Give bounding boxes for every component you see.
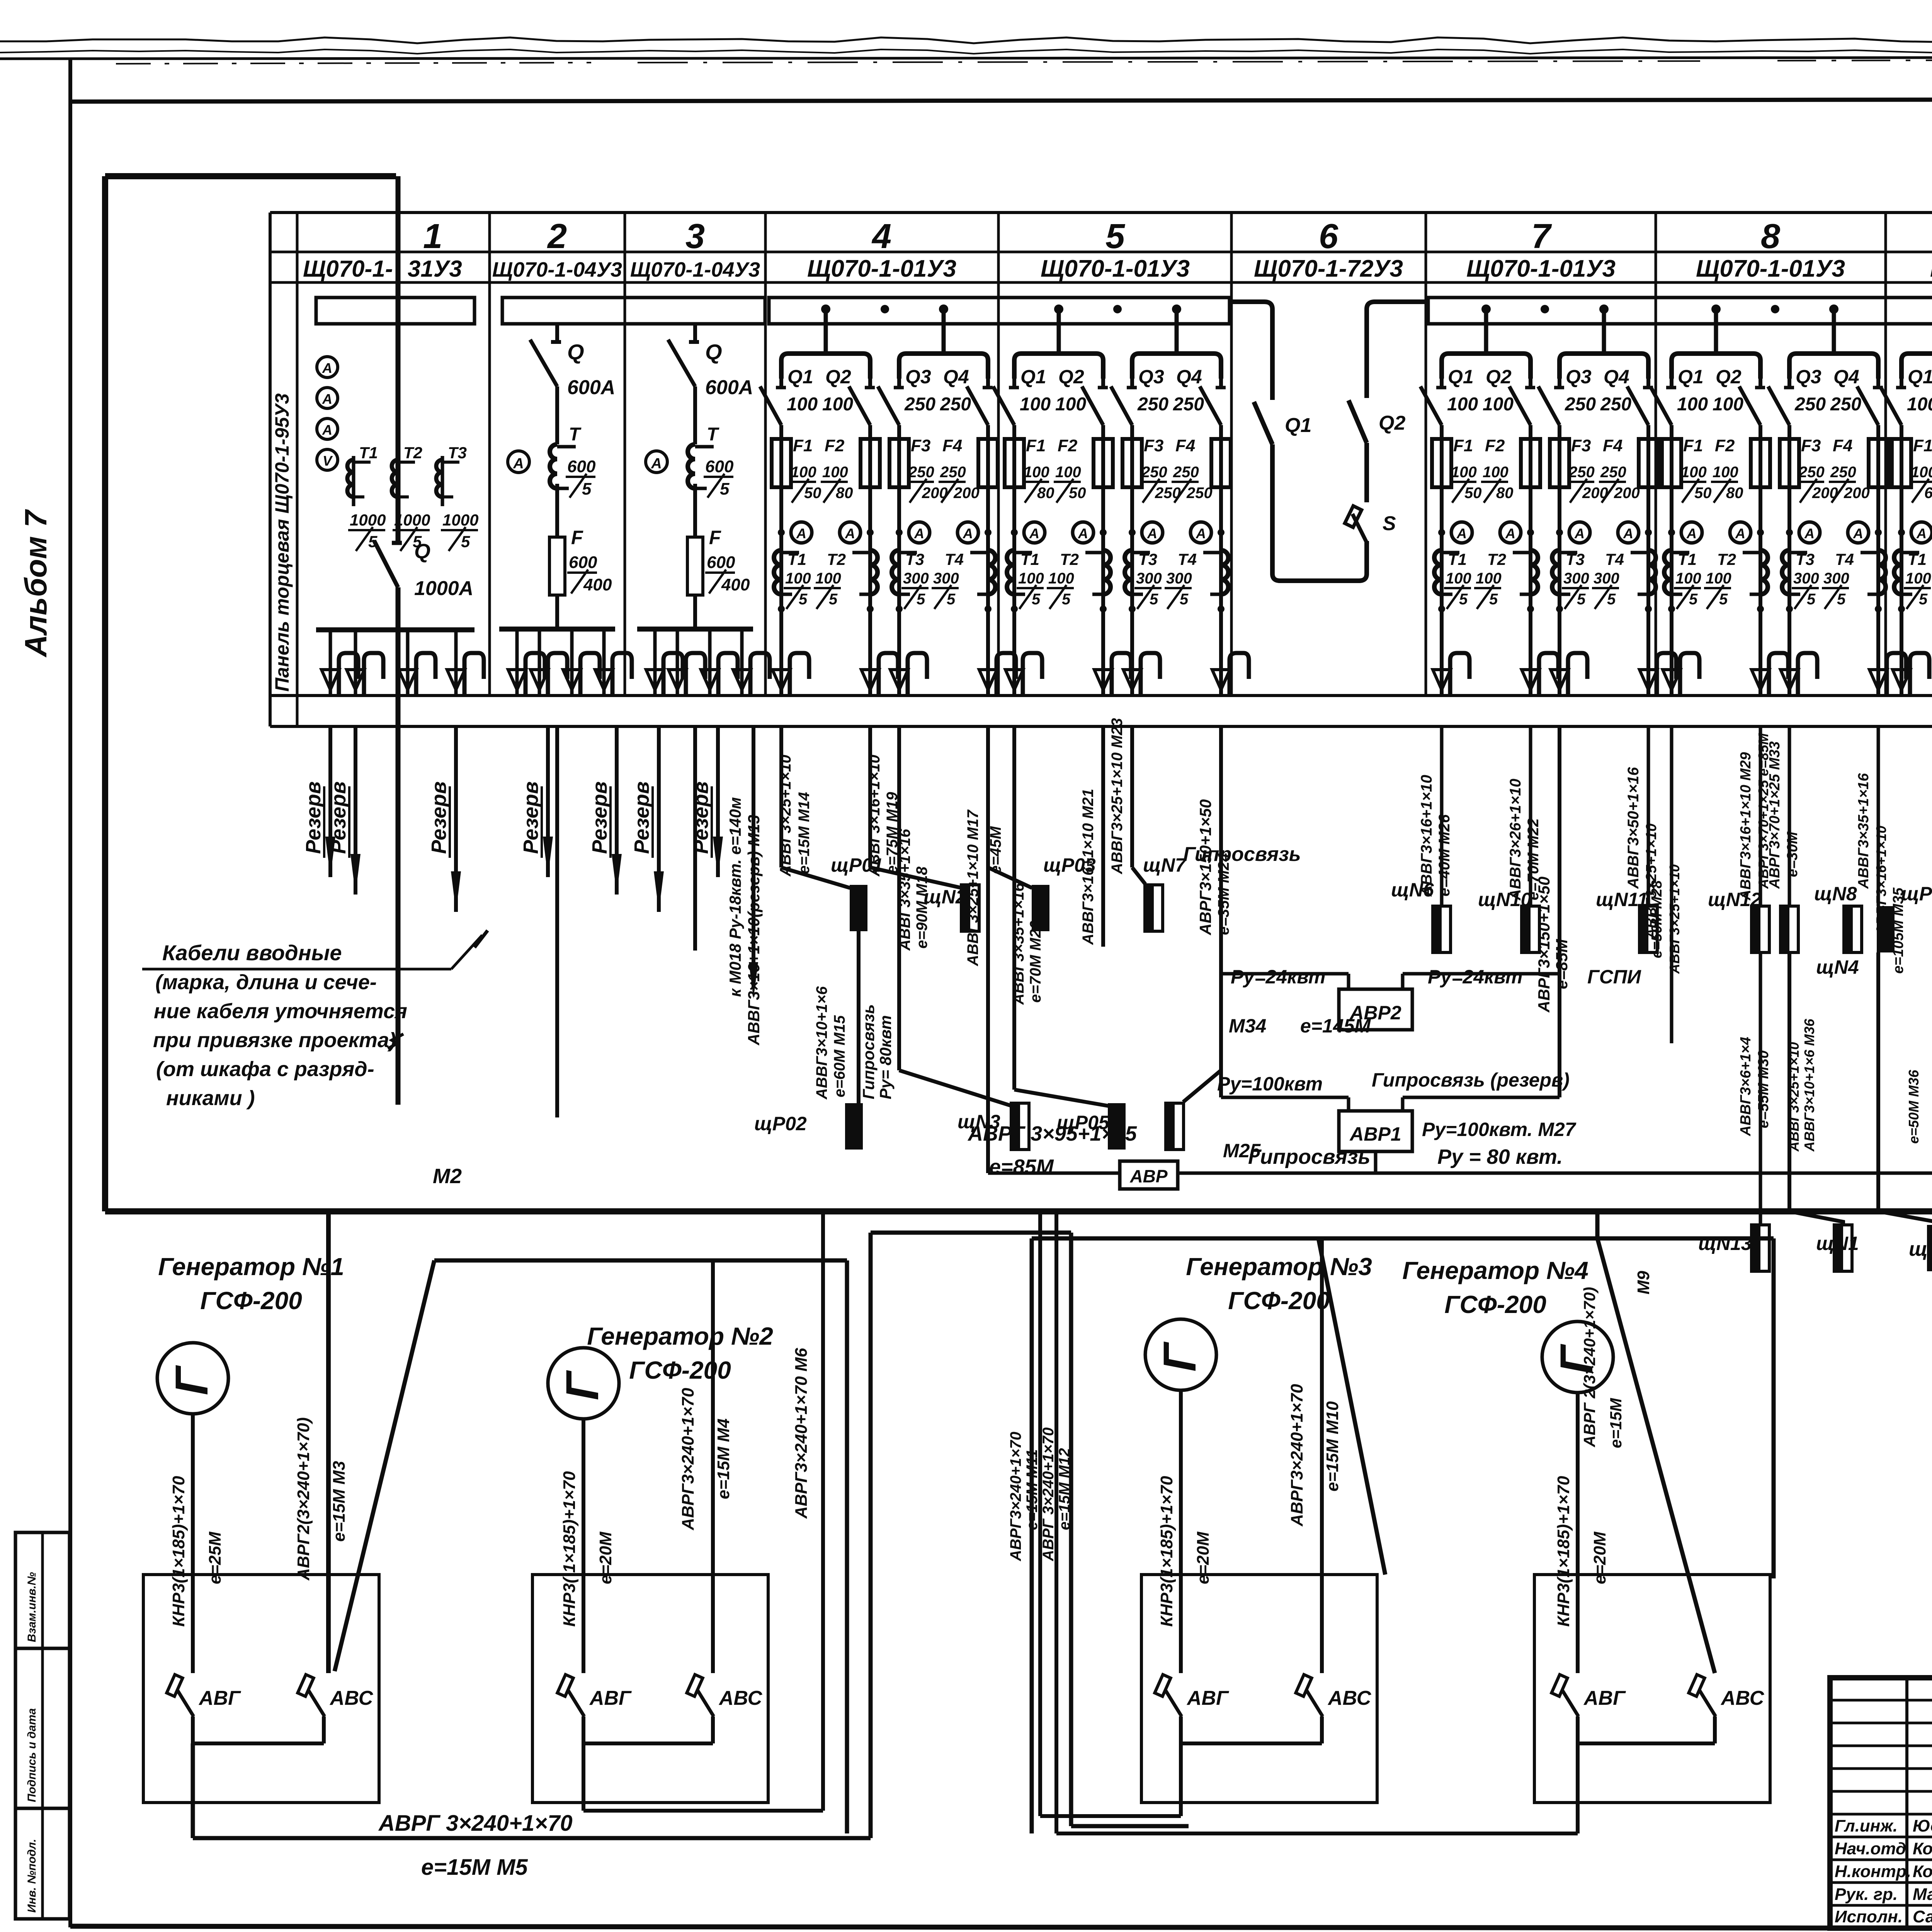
outgoing hook connector — [1433, 670, 1451, 690]
svg-text:Генератор №1: Генератор №1 — [158, 1253, 344, 1281]
svg-text:(марка, длина и сече-: (марка, длина и сече- — [155, 971, 377, 994]
switch АВС — [687, 1675, 702, 1696]
svg-text:Генератор №4: Генератор №4 — [1402, 1257, 1588, 1284]
svg-text:Т3: Т3 — [1138, 550, 1157, 568]
reserve outgoing arrow — [615, 726, 619, 895]
svg-text:100: 100 — [1706, 570, 1731, 587]
Giprosvyaz 80kW line — [1178, 1172, 1932, 1175]
breaker Q3 250A — [1558, 379, 1561, 388]
current transformer T 100/5 — [1103, 550, 1111, 594]
svg-text:Q4: Q4 — [1833, 366, 1859, 388]
svg-text:А: А — [1623, 526, 1633, 541]
svg-text:е=15М: е=15М — [1607, 1398, 1625, 1448]
bus tap dot x=4746 — [1829, 304, 1838, 314]
svg-text:600: 600 — [705, 457, 734, 476]
svg-text:Резерв: Резерв — [630, 781, 653, 854]
svg-text:5: 5 — [1105, 217, 1126, 256]
svg-text:S: S — [1383, 512, 1396, 535]
svg-text:100: 100 — [1055, 394, 1086, 415]
outgoing hook connector — [1752, 670, 1769, 690]
input cable M2 left — [396, 176, 401, 543]
fuse F 600/400 — [549, 537, 565, 595]
bus tap dot x=4441 — [1711, 304, 1721, 314]
svg-text:АВРГ 3×240+1×70: АВРГ 3×240+1×70 — [1040, 1427, 1057, 1561]
switch Q1 — [1254, 402, 1272, 444]
generator G4 symbol — [1542, 1321, 1613, 1393]
lead to AVR1 left — [1221, 1096, 1349, 1099]
svg-text:250: 250 — [940, 464, 966, 481]
svg-text:щР02: щР02 — [754, 1113, 807, 1134]
tap from section B busbar — [1375, 299, 1428, 304]
cable M23 to shchN7 — [1130, 726, 1134, 867]
outgoing hook connector — [1212, 670, 1230, 690]
bus tap dot x=3846 — [1481, 304, 1491, 314]
svg-text:F1: F1 — [1026, 436, 1046, 455]
svg-text:Q1: Q1 — [1678, 366, 1704, 388]
AVR1 down link — [1374, 1151, 1378, 1173]
switch Q 1000A on input line — [374, 541, 398, 587]
ammeter A — [1142, 522, 1163, 543]
outgoing hook connector — [772, 670, 790, 690]
svg-text:АВВГ3×25+1×10: АВВГ3×25+1×10 — [777, 755, 794, 877]
svg-text:М2: М2 — [433, 1165, 462, 1188]
svg-text:F4: F4 — [1175, 436, 1195, 455]
svg-text:АВВГ3×26+1×10: АВВГ3×26+1×10 — [1507, 779, 1524, 901]
svg-text:Резерв: Резерв — [689, 781, 713, 854]
svg-text:АВВГ3×35+1×16: АВВГ3×35+1×16 — [1010, 883, 1027, 1005]
svg-text:е=55М М30: е=55М М30 — [1755, 1050, 1772, 1128]
svg-text:КНР3( 1×185)+1×70: КНР3( 1×185)+1×70 — [560, 1471, 579, 1627]
svg-text:Мамренко: Мамренко — [1913, 1885, 1932, 1904]
svg-text:Самохина: Самохина — [1913, 1907, 1932, 1926]
cable M10 G3 AVS up — [1320, 1238, 1324, 1673]
svg-text:5: 5 — [582, 480, 592, 498]
svg-text:АВС: АВС — [1720, 1687, 1765, 1709]
svg-text:Q3: Q3 — [1796, 366, 1821, 388]
current transformer T 100/5 — [1007, 550, 1014, 594]
svg-text:АВРГ3×150+1×50: АВРГ3×150+1×50 — [1535, 876, 1553, 1013]
svg-text:Т3: Т3 — [1566, 550, 1585, 568]
svg-text:80: 80 — [1496, 485, 1514, 502]
ammeter A — [508, 451, 529, 473]
svg-text:ГСФ-200: ГСФ-200 — [1228, 1287, 1330, 1315]
AVR2 box — [1339, 989, 1412, 1030]
svg-text:к М018 Ру-18квт. е=140м: к М018 Ру-18квт. е=140м — [726, 797, 744, 997]
cable M31 M36 shchN1 — [1787, 952, 1791, 1211]
outgoing hook connector — [515, 629, 519, 694]
reserve outgoing arrow — [354, 726, 357, 895]
svg-text:Гипросвязь: Гипросвязь — [859, 1004, 878, 1099]
svg-text:100: 100 — [1681, 464, 1707, 481]
current transformer T 300/5 — [1648, 550, 1656, 594]
svg-text:А: А — [1804, 526, 1815, 541]
svg-text:е=15М М12: е=15М М12 — [1056, 1448, 1073, 1530]
ammeter A — [1569, 522, 1590, 543]
generator G1 cable — [191, 1414, 195, 1673]
svg-text:250: 250 — [1798, 464, 1825, 481]
svg-text:Т1: Т1 — [1448, 550, 1467, 568]
svg-text:Взам.инв.№: Взам.инв.№ — [26, 1572, 38, 1642]
breaker Q1 100A — [1900, 379, 1903, 388]
svg-text:Q2: Q2 — [825, 366, 851, 388]
svg-text:8: 8 — [1761, 217, 1780, 256]
svg-text:КНР3(1×185)+1×70: КНР3(1×185)+1×70 — [1157, 1476, 1176, 1627]
svg-text:Т2: Т2 — [1717, 550, 1736, 568]
cable M11 vertical — [1038, 1211, 1042, 1816]
generator internal wiring — [1179, 1716, 1183, 1743]
svg-text:Т4: Т4 — [1835, 550, 1854, 568]
svg-text:100: 100 — [1446, 570, 1471, 587]
svg-text:100: 100 — [1713, 394, 1743, 415]
svg-text:Кабели вводные: Кабели вводные — [162, 940, 342, 965]
svg-text:Q4: Q4 — [1604, 366, 1629, 388]
cable M14 to panel shchR01 — [779, 726, 783, 867]
cable M4 G2 AVS up — [711, 1260, 715, 1673]
cable M29 shchN12 — [1759, 726, 1762, 906]
switch S — [1345, 506, 1361, 527]
generator G2 symbol — [548, 1348, 619, 1419]
breaker Q 600A — [530, 340, 557, 386]
current transformers T1 T2 T3 1000/5 — [352, 456, 355, 506]
svg-text:Генератор №2: Генератор №2 — [587, 1322, 773, 1350]
breaker Q1 100A — [1440, 379, 1444, 388]
svg-text:А: А — [796, 526, 806, 541]
svg-text:АВРГ 2(3×240+1×70): АВРГ 2(3×240+1×70) — [1580, 1287, 1599, 1447]
fuse F 600/400 — [687, 537, 703, 595]
reserve outgoing arrow — [546, 726, 550, 877]
svg-text:М9: М9 — [1634, 1270, 1653, 1294]
svg-text:300: 300 — [1823, 570, 1849, 587]
generator G3 cell box — [1141, 1575, 1377, 1803]
current transformer T 300/5 — [988, 550, 995, 594]
svg-text:F3: F3 — [1571, 436, 1591, 455]
current transformer T 100/5 — [1894, 550, 1901, 594]
svg-text:Т3: Т3 — [905, 550, 924, 568]
svg-text:АВР: АВР — [1129, 1166, 1167, 1186]
breaker Q1 100A — [779, 379, 783, 388]
svg-text:200: 200 — [1614, 485, 1640, 502]
svg-text:80: 80 — [1037, 485, 1054, 502]
outgoing hook connector — [329, 630, 332, 694]
svg-text:АВВГ3×16+1×10(резерв) М13: АВВГ3×16+1×10(резерв) М13 — [745, 815, 763, 1046]
svg-text:ние кабеля уточняется: ние кабеля уточняется — [154, 1000, 407, 1023]
svg-text:100: 100 — [1447, 394, 1478, 415]
svg-text:5: 5 — [917, 591, 925, 608]
svg-text:Т4: Т4 — [1605, 550, 1624, 568]
cable M17 to shchR03 and AVR — [986, 726, 990, 1173]
svg-text:АВС: АВС — [329, 1687, 374, 1709]
svg-text:5: 5 — [720, 480, 730, 498]
svg-text:А: А — [322, 391, 332, 407]
outgoing hook connector — [1893, 670, 1910, 690]
svg-text:Резерв: Резерв — [588, 781, 611, 854]
svg-text:АВР1: АВР1 — [1349, 1123, 1401, 1145]
outgoing hook connector — [979, 670, 997, 690]
svg-text:Q: Q — [414, 540, 430, 563]
svg-text:Щ070-1-01У3: Щ070-1-01У3 — [1696, 255, 1845, 282]
svg-text:Щ070-1-01У3: Щ070-1-01У3 — [1041, 255, 1190, 282]
feeder pair bracket — [1789, 354, 1878, 379]
svg-text:5: 5 — [1837, 591, 1846, 608]
outgoing hook connector — [740, 629, 744, 694]
svg-text:А: А — [1196, 526, 1206, 541]
ammeter A — [1024, 522, 1045, 543]
left end panel strip — [296, 213, 299, 726]
outgoing hook connector — [570, 629, 574, 694]
current transformer T 100/5 — [1760, 550, 1768, 594]
svg-text:250: 250 — [1141, 464, 1167, 481]
sheet top scan edge (wavy) — [0, 37, 1932, 43]
svg-text:F2: F2 — [825, 436, 845, 455]
svg-text:е=40М М26: е=40М М26 — [1436, 814, 1453, 896]
svg-text:Q3: Q3 — [905, 366, 931, 388]
svg-text:600А: 600А — [567, 376, 615, 399]
svg-text:F2: F2 — [1485, 436, 1505, 455]
breaker Q4 250A — [986, 379, 990, 388]
switch АВГ — [1551, 1675, 1567, 1696]
svg-text:1000: 1000 — [442, 511, 478, 529]
fuse F3 250/200 — [889, 439, 909, 487]
generator G3 cable — [1179, 1390, 1183, 1673]
svg-text:АВРГ3×70+1×25 М33: АВРГ3×70+1×25 М33 — [1767, 742, 1783, 889]
current transformer T 300/5 — [1782, 550, 1789, 594]
svg-text:F: F — [709, 527, 721, 548]
busbar sections — [316, 298, 474, 324]
svg-text:е=15М М3: е=15М М3 — [330, 1461, 349, 1542]
svg-text:250: 250 — [1600, 464, 1626, 481]
svg-text:АВРГ3×150+1×50: АВРГ3×150+1×50 — [1196, 799, 1214, 935]
outgoing hook connector — [1123, 670, 1141, 690]
svg-text:щN8: щN8 — [1814, 883, 1857, 905]
panel column separators — [488, 213, 491, 696]
svg-text:50: 50 — [1464, 485, 1482, 502]
bus tap dot x=4151 — [1599, 304, 1609, 314]
svg-text:Q2: Q2 — [1486, 366, 1512, 388]
svg-text:е=15М М14: е=15М М14 — [796, 792, 813, 874]
breaker Q2 100A — [1529, 379, 1532, 388]
svg-text:1000А: 1000А — [414, 577, 473, 600]
cable M28b — [1670, 726, 1673, 1043]
generator 2 enclosure — [434, 1259, 847, 1263]
svg-text:5: 5 — [1807, 591, 1816, 608]
cable M22 shchN10 — [1529, 726, 1532, 906]
svg-text:100: 100 — [785, 570, 811, 587]
switch АВС — [1689, 1675, 1704, 1696]
svg-text:Т2: Т2 — [403, 444, 422, 462]
svg-text:Q2: Q2 — [1058, 366, 1084, 388]
breaker Q2 100A — [1759, 379, 1762, 388]
svg-text:250: 250 — [1137, 394, 1168, 415]
reserve outgoing arrow — [657, 726, 661, 912]
left margin stamp boxes — [15, 1532, 70, 1648]
svg-text:Q4: Q4 — [943, 366, 969, 388]
fuse F3 250/200 — [1780, 439, 1799, 487]
switch АВС — [1296, 1675, 1311, 1696]
svg-text:АВРГ3×240+1×70: АВРГ3×240+1×70 — [679, 1388, 697, 1531]
switch АВГ — [167, 1675, 182, 1696]
svg-text:Козлов: Козлов — [1913, 1862, 1932, 1881]
svg-text:V: V — [323, 453, 333, 469]
svg-text:Ру=100квт: Ру=100квт — [1217, 1073, 1323, 1095]
svg-text:е=20М: е=20М — [1590, 1531, 1609, 1584]
svg-text:АВВГ3×25+1×10 М23: АВВГ3×25+1×10 М23 — [1109, 718, 1126, 874]
svg-text:600: 600 — [567, 457, 596, 476]
svg-text:100: 100 — [822, 394, 853, 415]
svg-text:250: 250 — [1173, 464, 1199, 481]
svg-text:Т1: Т1 — [1020, 550, 1039, 568]
svg-text:щN7: щN7 — [1143, 854, 1187, 876]
generator G3 symbol — [1145, 1319, 1216, 1390]
svg-text:А: А — [1078, 526, 1088, 541]
svg-text:ГСПИ: ГСПИ — [1587, 966, 1641, 988]
svg-text:400: 400 — [721, 575, 750, 594]
generator internal wiring — [1576, 1716, 1580, 1743]
svg-text:100: 100 — [1024, 464, 1049, 481]
svg-text:е=20М: е=20М — [1194, 1531, 1213, 1584]
svg-text:2: 2 — [547, 217, 567, 256]
cable column 3 down — [693, 726, 697, 951]
breaker Q3 250A — [1130, 379, 1134, 388]
svg-text:АВВГ3×10+1×6: АВВГ3×10+1×6 — [813, 986, 830, 1100]
svg-text:100: 100 — [1055, 464, 1081, 481]
tap from section A busbar — [1230, 299, 1264, 304]
svg-text:5: 5 — [1607, 591, 1616, 608]
cable M35 shchN4 shchR04 — [1877, 726, 1880, 906]
svg-text:100: 100 — [1476, 570, 1502, 587]
svg-text:300: 300 — [1166, 570, 1192, 587]
svg-text:е=85М: е=85М — [989, 1155, 1054, 1179]
svg-text:6: 6 — [1319, 217, 1338, 256]
ammeter A — [1730, 522, 1751, 543]
svg-text:5: 5 — [799, 591, 808, 608]
svg-text:Юдин: Юдин — [1913, 1816, 1932, 1835]
svg-text:А: А — [1916, 526, 1927, 541]
feeder distribution bar — [637, 627, 753, 632]
svg-text:F4: F4 — [1603, 436, 1622, 455]
svg-text:Т1: Т1 — [1678, 550, 1697, 568]
svg-text:А: А — [1505, 526, 1515, 541]
svg-text:200: 200 — [1844, 485, 1870, 502]
ammeter A — [1073, 522, 1094, 543]
svg-text:е=35М М24: е=35М М24 — [1215, 853, 1232, 935]
switch АВГ — [557, 1675, 573, 1696]
svg-text:никами ): никами ) — [166, 1087, 255, 1110]
svg-text:е=70М М20: е=70М М20 — [1027, 921, 1044, 1003]
svg-text:Q2: Q2 — [1379, 412, 1405, 434]
fuse F2 100/80 — [1521, 439, 1540, 487]
svg-text:е=45М: е=45М — [987, 826, 1004, 874]
breaker Q3 250A — [1787, 379, 1791, 388]
feeder pair bracket — [1672, 354, 1760, 379]
svg-text:АВГ: АВГ — [1583, 1687, 1626, 1709]
cable M9 diagonal to G4 AVS — [1595, 1211, 1600, 1238]
svg-text:е=20М: е=20М — [596, 1531, 615, 1584]
svg-text:Генератор №3: Генератор №3 — [1186, 1253, 1372, 1281]
svg-text:100: 100 — [787, 394, 818, 415]
outgoing hook connector — [1005, 670, 1023, 690]
svg-text:Гипросвязь: Гипросвязь — [1248, 1145, 1370, 1168]
feeder pair bracket — [1442, 354, 1531, 379]
svg-text:е=30М: е=30М — [1784, 831, 1801, 877]
svg-text:F2: F2 — [1715, 436, 1735, 455]
svg-text:Козлов: Козлов — [1913, 1839, 1932, 1858]
cable M21 — [1101, 726, 1105, 947]
generator G4 cable — [1576, 1393, 1580, 1673]
fuse F3 250/200 — [1550, 439, 1569, 487]
svg-text:А: А — [322, 360, 332, 376]
svg-text:250: 250 — [1830, 394, 1861, 415]
fuse F4 250/250 — [1211, 439, 1231, 487]
svg-text:Н.контр.: Н.контр. — [1835, 1862, 1911, 1881]
svg-text:при привязке проекта): при привязке проекта) — [153, 1029, 396, 1052]
ammeter A — [791, 522, 812, 543]
svg-text:250: 250 — [904, 394, 935, 415]
switch Q2 — [1349, 400, 1367, 443]
svg-text:АВРГ2(3×240+1×70): АВРГ2(3×240+1×70) — [294, 1417, 313, 1581]
svg-text:Гл.инж.: Гл.инж. — [1835, 1816, 1898, 1835]
svg-text:250: 250 — [1830, 464, 1856, 481]
cable M19 to shchN2 — [868, 726, 872, 867]
feeder pair bracket — [1901, 354, 1932, 379]
svg-text:1000: 1000 — [350, 511, 386, 529]
bus tap dot x=2740 — [1054, 304, 1063, 314]
outgoing hook connector — [602, 629, 606, 694]
sheet frame — [70, 99, 1932, 102]
outgoing hook connector — [406, 630, 410, 694]
bus tap dot x=2442 — [939, 304, 948, 314]
svg-text:300: 300 — [1563, 570, 1589, 587]
svg-text:Q1: Q1 — [787, 366, 813, 388]
svg-text:600: 600 — [569, 553, 597, 572]
bus tap dot x=3045 — [1172, 304, 1181, 314]
svg-text:5: 5 — [1577, 591, 1586, 608]
svg-text:Q1: Q1 — [1448, 366, 1474, 388]
outgoing hook connector — [890, 670, 908, 690]
svg-text:АВРГ 3×240+1×70: АВРГ 3×240+1×70 — [378, 1811, 573, 1836]
svg-text:АВРГ3×240+1×70: АВРГ3×240+1×70 — [1007, 1432, 1024, 1561]
current transformer T 600/5 — [688, 444, 695, 488]
svg-text:300: 300 — [903, 570, 929, 587]
svg-text:КНР3(1×185)+1×70: КНР3(1×185)+1×70 — [169, 1476, 188, 1627]
svg-text:Т2: Т2 — [1060, 550, 1079, 568]
svg-text:е=15М М10: е=15М М10 — [1323, 1401, 1342, 1492]
svg-text:Т: Т — [707, 424, 719, 445]
svg-text:600А: 600А — [705, 376, 753, 399]
outgoing hook connector — [454, 630, 458, 694]
cable AVRG3x150 reserve — [1558, 726, 1561, 1097]
svg-text:Гипросвязь (резерв): Гипросвязь (резерв) — [1372, 1069, 1570, 1091]
svg-text:Щ070-1-01У3: Щ070-1-01У3 — [807, 255, 956, 282]
svg-text:5: 5 — [1719, 591, 1728, 608]
svg-text:А: А — [1735, 526, 1745, 541]
svg-text:5: 5 — [1032, 591, 1041, 608]
svg-text:100: 100 — [1713, 464, 1738, 481]
outgoing hook connector — [1551, 670, 1568, 690]
svg-text:Нач.отд: Нач.отд — [1835, 1839, 1906, 1858]
svg-text:250: 250 — [1565, 394, 1596, 415]
svg-text:50: 50 — [1694, 485, 1712, 502]
svg-text:5: 5 — [1062, 591, 1071, 608]
svg-text:АВВГ3×25+1×10: АВВГ3×25+1×10 — [1667, 864, 1682, 974]
svg-text:АВВГ3×16+1×10: АВВГ3×16+1×10 — [1418, 775, 1435, 897]
current transformer T 100/5 — [1434, 550, 1442, 594]
breaker Q2 100A — [1101, 379, 1105, 388]
svg-text:А: А — [963, 526, 973, 541]
cable M3 to G1 AVS — [326, 1211, 331, 1673]
generator 3-4 enclosure — [1032, 1236, 1774, 1241]
svg-text:Щ070-1-72У3: Щ070-1-72У3 — [1254, 255, 1403, 282]
fuse F2 100/80 — [861, 439, 880, 487]
